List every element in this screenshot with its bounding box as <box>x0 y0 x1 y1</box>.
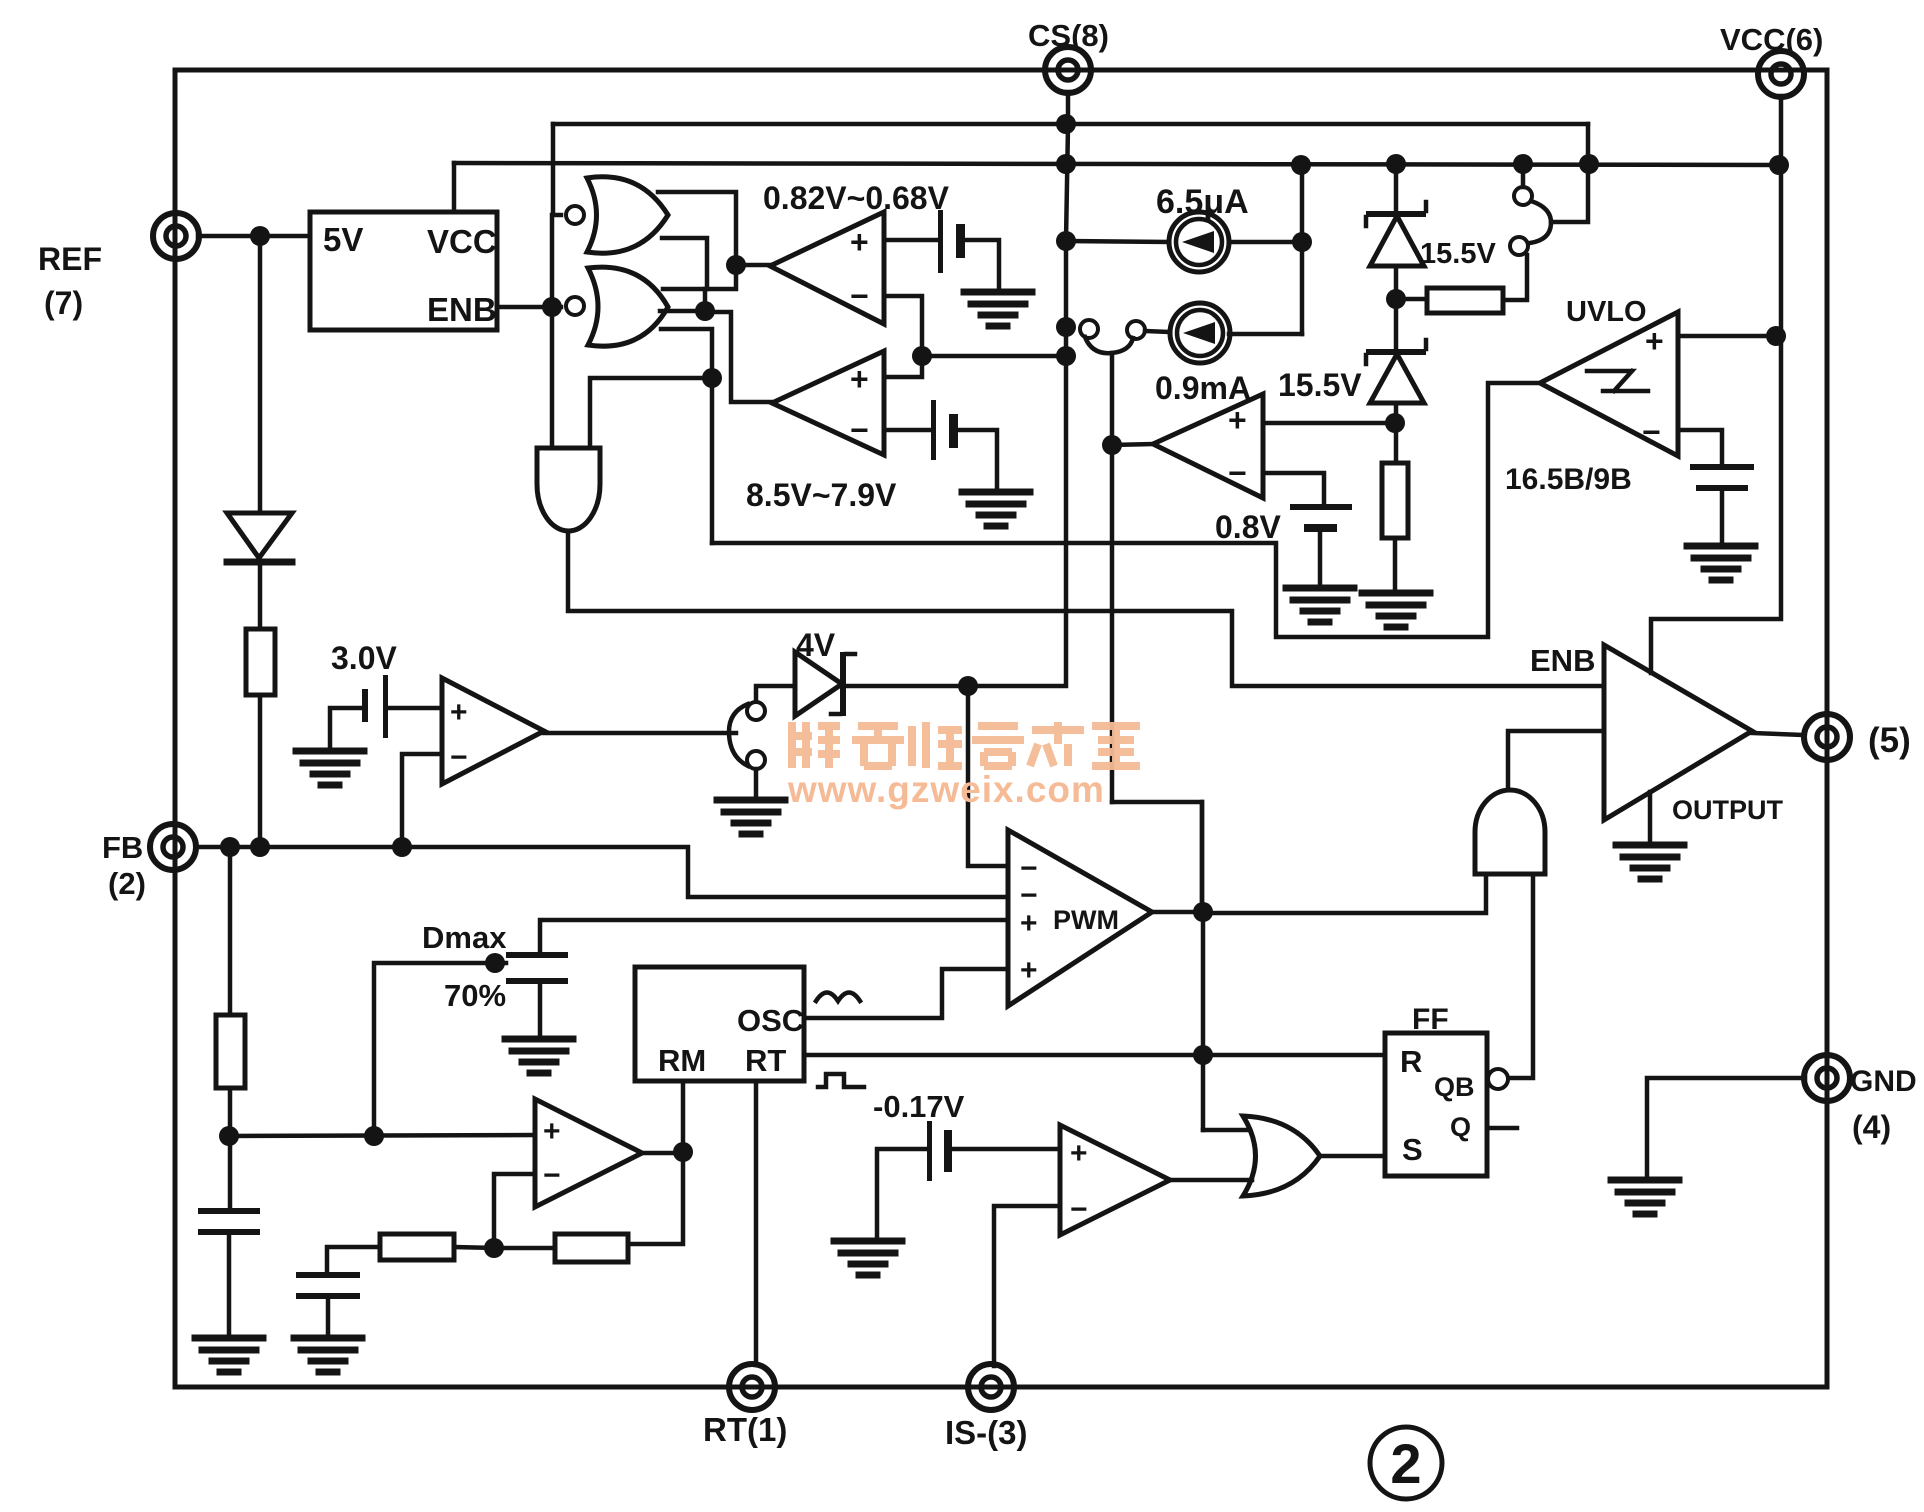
ground for C4 <box>294 1338 362 1372</box>
wire inner top line y=124 <box>553 122 1588 127</box>
wire FF Q stub <box>1487 1126 1517 1131</box>
node rail-zener <box>1386 154 1406 174</box>
block OSC <box>635 967 804 1081</box>
wire NOR1 lower tail <box>662 238 707 289</box>
pin GND(4) <box>1804 1055 1850 1101</box>
svg-text:FB: FB <box>102 830 143 865</box>
ground for driver <box>1616 845 1684 879</box>
switch SW3 (VCC select) <box>1521 165 1526 187</box>
wire IS output to OR <box>1170 1178 1252 1183</box>
svg-text:QB: QB <box>1434 1072 1475 1102</box>
svg-text:(5): (5) <box>1868 721 1911 760</box>
node comp3+ tap <box>1385 413 1405 433</box>
node rail-switch <box>1513 154 1533 174</box>
wire NOR2 bottom tail down to UVLO line <box>661 329 712 543</box>
node CS-0.9 tie <box>1056 231 1076 251</box>
comparator 8.5V (mirrored, output at left apex) <box>772 351 884 455</box>
svg-text:+: + <box>1020 954 1038 987</box>
node A NOR1/comp1 output <box>726 255 746 275</box>
comparator 0.82V (mirrored, output at left apex) <box>770 212 884 324</box>
wire SW2 up to diode <box>756 686 795 701</box>
svg-text:RT: RT <box>745 1043 786 1078</box>
wire comp2 + input up to tie node <box>884 356 922 377</box>
node comp3 out <box>1102 435 1122 455</box>
wire OSC output to PWM + <box>804 969 1008 1018</box>
pin REF(7) <box>153 213 199 259</box>
svg-text:0.8V: 0.8V <box>1215 509 1281 545</box>
figure number 2 <box>1370 1427 1442 1499</box>
svg-text:3.0V: 3.0V <box>331 640 397 676</box>
wire R5 to C4 <box>327 1247 380 1272</box>
wire AND2 right input from FF QB <box>1509 874 1533 1078</box>
node Dmax landing <box>364 1126 384 1146</box>
svg-text:RT(1): RT(1) <box>703 1411 787 1448</box>
svg-text:www.gzweix.com: www.gzweix.com <box>787 769 1105 810</box>
wire comp3 output <box>1112 444 1153 445</box>
node isrc join <box>1292 232 1312 252</box>
battery B4 3.0V <box>362 689 368 722</box>
wire RM down <box>681 1081 686 1151</box>
wire driver output to pin5 <box>1752 733 1804 735</box>
watermark row1 (CJK-style blocks) <box>788 722 1140 768</box>
node topline-CS <box>1056 114 1076 134</box>
capacitor C4 <box>296 1272 360 1278</box>
node rail-CS <box>1056 154 1076 174</box>
block 5V regulator U1 <box>310 212 497 330</box>
wire comp - feedback tap <box>494 1174 535 1249</box>
svg-text:+: + <box>450 696 468 729</box>
ground for R3 <box>1362 593 1430 627</box>
zener Z1 15.5V <box>1394 165 1399 214</box>
ground for SW2 <box>717 800 785 834</box>
ground for GND pin <box>1611 1180 1679 1214</box>
svg-text:+: + <box>1228 402 1247 438</box>
capacitor C3 (Dmax) <box>506 952 568 958</box>
resistor R2 (horizontal) <box>1396 297 1427 302</box>
battery B3 0.8V <box>1290 504 1352 510</box>
wire divider tap to comparator <box>229 1135 535 1136</box>
svg-text:+: + <box>543 1115 561 1148</box>
svg-text:(7): (7) <box>44 285 83 321</box>
wire C3 top to PWM + line <box>540 920 1008 952</box>
svg-text:PWM: PWM <box>1053 905 1119 935</box>
wire comp3 + input <box>1263 421 1395 426</box>
svg-text:REF: REF <box>38 241 102 277</box>
pin FB(2) <box>150 824 196 870</box>
wire comp - input tap to FB <box>402 754 442 848</box>
wire comp2 - input to battery <box>884 428 931 433</box>
svg-text:FF: FF <box>1412 1003 1449 1036</box>
node CS-switch <box>1056 317 1076 337</box>
wire isrc rail drop <box>1300 165 1305 334</box>
diode D2 4V <box>795 652 842 716</box>
ENB output driver U2 <box>1604 645 1752 820</box>
node tie (comp1-/comp2+) <box>912 346 932 366</box>
wire B5 to IS comp + <box>952 1147 1060 1152</box>
ground for B2 <box>962 492 1030 526</box>
wire 5V VCC up to rail <box>452 163 457 212</box>
wire blade to inner top line <box>1551 124 1588 222</box>
node CS-diode <box>958 676 978 696</box>
svg-text:ENB: ENB <box>1530 643 1595 678</box>
svg-text:OUTPUT: OUTPUT <box>1672 795 1784 825</box>
wire B4 to comp + <box>388 706 442 711</box>
svg-text:IS-(3): IS-(3) <box>945 1414 1028 1451</box>
svg-text:(4): (4) <box>1852 1109 1891 1145</box>
svg-text:16.5B/9B: 16.5B/9B <box>1505 463 1632 496</box>
node rail-VCCpin <box>1769 155 1789 175</box>
svg-text:+: + <box>850 361 869 397</box>
svg-text:ENB: ENB <box>427 291 497 328</box>
svg-text:70%: 70% <box>444 978 506 1013</box>
block FF <box>1385 1033 1487 1176</box>
svg-text:−: − <box>543 1159 561 1192</box>
svg-text:−: − <box>1070 1193 1088 1226</box>
wire PWM out top jog handled above <box>1200 802 1205 912</box>
FF QB bubble <box>1488 1069 1508 1089</box>
pin IS-(3) <box>968 1364 1014 1410</box>
battery B1 0.82V~0.68V <box>938 210 943 273</box>
wire UVLO output路 y=543 <box>712 383 1540 637</box>
node PWM out <box>1193 902 1213 922</box>
wire comp output to SW2 <box>544 731 736 736</box>
svg-text:GND: GND <box>1850 1065 1917 1098</box>
svg-text:CS(8): CS(8) <box>1028 18 1109 53</box>
battery B5 -0.17V <box>927 1121 932 1181</box>
comparator IS <box>1060 1125 1170 1235</box>
wire driver ground <box>1648 792 1653 844</box>
wire driver lower input from AND2 <box>1508 731 1604 790</box>
node FB-3V <box>392 837 412 857</box>
svg-text:VCC(6): VCC(6) <box>1720 22 1823 57</box>
svg-text:−: − <box>450 741 468 774</box>
comparator UVLO (mirrored) <box>1540 312 1678 456</box>
wire NOR2 output to node B <box>660 309 705 314</box>
svg-text:+: + <box>850 224 869 260</box>
svg-text:4V: 4V <box>796 627 836 663</box>
node rail-isrc <box>1291 155 1311 175</box>
node AND right input tap <box>702 368 722 388</box>
svg-text:OSC: OSC <box>737 1003 804 1038</box>
wire GND pin branch <box>1647 1078 1805 1179</box>
zener Z2 15.5V <box>1366 349 1426 355</box>
wire SW1 arm down to comp3 output <box>1110 353 1115 802</box>
wire FB bus <box>196 847 1008 897</box>
svg-text:S: S <box>1402 1132 1423 1167</box>
svg-text:Q: Q <box>1450 1112 1471 1142</box>
resistor R1 (REF chain) <box>258 562 263 629</box>
capacitor C2 <box>198 1208 260 1214</box>
wire AND1 left input from ENB node <box>550 307 555 448</box>
switch SW2 (soft start) <box>747 702 765 720</box>
gate OR1 <box>1243 1116 1320 1196</box>
wire node A to comparator apex <box>736 263 770 268</box>
ground for C3 <box>505 1039 573 1073</box>
resistor R6 <box>555 1234 628 1262</box>
pin RT(1) <box>729 1364 775 1410</box>
svg-text:15.5V: 15.5V <box>1420 238 1496 270</box>
ground for C1 <box>1687 546 1755 580</box>
comparator PWM <box>1008 830 1152 1006</box>
hysteresis symbol <box>1587 371 1648 391</box>
wire jog to PWM output column <box>1112 802 1202 912</box>
node REF/divider junction <box>250 226 270 246</box>
node FB-divider <box>220 837 240 857</box>
IC outer border <box>175 70 1827 1387</box>
wire comp output node <box>642 1151 683 1156</box>
svg-text:5V: 5V <box>323 221 363 258</box>
ramp symbol <box>816 993 860 1002</box>
node rail-blade <box>1579 154 1599 174</box>
svg-text:+: + <box>1070 1137 1088 1170</box>
wire Dmax bracket <box>374 963 506 1136</box>
wire AND2 left input from PWM out <box>1203 874 1486 913</box>
wire comp1 - input down to tie node <box>884 296 922 356</box>
wire PWM out to OR top input <box>1203 1128 1247 1133</box>
svg-text:−: − <box>850 278 869 314</box>
capacitor C1 <box>1690 464 1754 470</box>
wire R1 to FB node <box>258 695 263 848</box>
svg-text:8.5V~7.9V: 8.5V~7.9V <box>746 477 897 513</box>
svg-text:−: − <box>1642 414 1661 450</box>
svg-text:2: 2 <box>1390 1432 1421 1495</box>
current source 6.5uA <box>1066 241 1169 242</box>
svg-text:RM: RM <box>658 1043 706 1078</box>
svg-text:−: − <box>1228 455 1247 491</box>
node Dmax cap <box>485 953 505 973</box>
wire OR output to FF S <box>1320 1154 1385 1159</box>
wire AND1 right input tap <box>590 378 712 448</box>
diode D1 (REF chain) <box>258 236 263 513</box>
pin (5) <box>1804 714 1850 760</box>
svg-text:+: + <box>1020 907 1038 940</box>
wire RT pin column <box>754 1081 759 1365</box>
comparator FB error (bottom left) <box>535 1099 642 1207</box>
pulse symbol <box>818 1074 864 1087</box>
ground for C2 <box>195 1338 263 1372</box>
wire PWM out column <box>1201 912 1206 1130</box>
svg-text:R: R <box>1400 1044 1422 1079</box>
svg-text:0.9mA: 0.9mA <box>1155 370 1251 406</box>
gate AND2 (points up) <box>1475 790 1545 874</box>
node resistor junction <box>484 1238 504 1258</box>
wire SW2 down to ground <box>754 769 759 799</box>
resistor R5 <box>380 1234 454 1260</box>
svg-text:0.82V~0.68V: 0.82V~0.68V <box>763 180 950 216</box>
node RM/comp out <box>673 1142 693 1162</box>
wire VCC rail y=163 <box>454 163 1779 165</box>
gate AND1 (ENB, points down) <box>537 448 600 531</box>
wire NOR1 output tangle <box>658 192 736 289</box>
comparator 3.0V <box>442 678 544 784</box>
resistor R4 (FB divider) <box>228 847 233 1015</box>
node divider tap <box>219 1126 239 1146</box>
svg-text:(2): (2) <box>108 866 146 901</box>
svg-text:VCC: VCC <box>427 223 497 260</box>
wire tie node to CS line <box>922 354 1066 359</box>
current source 0.9mA <box>1170 303 1230 363</box>
svg-text:+: + <box>1645 323 1664 359</box>
wire VCC pin column <box>1651 96 1781 673</box>
ground for B1 <box>964 292 1032 326</box>
wire IS - input to pin <box>994 1206 1060 1366</box>
gate NOR2 <box>566 297 584 315</box>
wire comp3 - input to 0.8V battery <box>1263 473 1324 505</box>
node UVLO+/VCC <box>1766 326 1786 346</box>
node B NOR2/comp2 output <box>695 301 715 321</box>
node CS-tie <box>1056 346 1076 366</box>
pin CS(8) <box>1045 47 1091 93</box>
wire 5V ENB output <box>497 305 561 310</box>
wire PWM output node <box>1152 910 1203 915</box>
svg-text:6.5μA: 6.5μA <box>1156 183 1249 221</box>
node FB-REF <box>250 837 270 857</box>
node ENB junction <box>542 297 562 317</box>
svg-text:UVLO: UVLO <box>1566 296 1647 328</box>
svg-text:-0.17V: -0.17V <box>873 1089 965 1124</box>
wire UVLO + input to VCC column <box>1678 334 1776 339</box>
resistor R3 (vertical) <box>1382 463 1408 538</box>
comparator 0.9mA/0.8V (mirrored) <box>1153 394 1263 498</box>
wire node B to 8.5V comparator apex <box>705 312 771 402</box>
gate NOR1 <box>566 206 584 224</box>
wire comp1 + input to battery <box>884 238 937 243</box>
ground for B5 <box>834 1241 902 1275</box>
battery B2 8.5V~7.9V <box>931 400 936 460</box>
wire D2 cathode to CS node <box>846 684 968 689</box>
wire feedback loop <box>628 1153 683 1244</box>
wire REF pin to 5V block <box>198 234 310 239</box>
node PWM/RT cross <box>1193 1045 1213 1065</box>
ground for B4 <box>296 751 364 785</box>
wire CS node down to PWM input <box>968 686 1008 866</box>
wire UVLO - input to cap <box>1678 430 1722 464</box>
switch SW1 (CS select) <box>1080 320 1098 338</box>
pin VCC(6) <box>1758 51 1804 97</box>
svg-text:−: − <box>850 412 869 448</box>
wire RT output to FF R <box>804 1053 1385 1058</box>
wire CS pin line <box>968 92 1068 686</box>
svg-text:15.5V: 15.5V <box>1278 367 1362 403</box>
node zener/resistor tap <box>1386 289 1406 309</box>
svg-text:Dmax: Dmax <box>422 920 507 955</box>
ground for B3 <box>1286 588 1354 622</box>
wire AND1 output to ENB driver <box>568 531 1604 686</box>
